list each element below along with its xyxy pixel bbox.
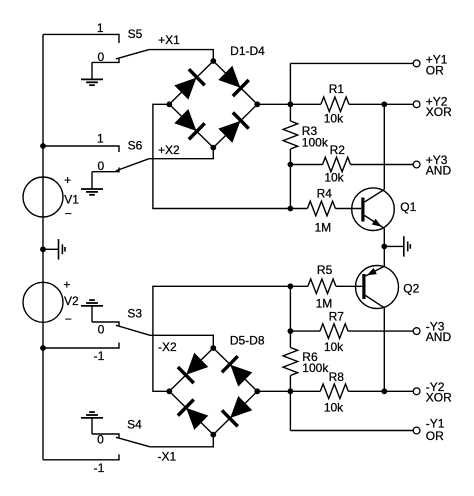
label 1 (S6) — [97, 132, 104, 146]
svg-text:-1: -1 — [94, 349, 105, 363]
resistor R5 — [290, 279, 362, 294]
label 10k (R1) — [324, 112, 344, 126]
wire Q1 collector up — [383, 104, 385, 189]
label R4 — [317, 187, 333, 201]
node emitter-ground junction — [381, 244, 387, 250]
svg-text:0: 0 — [97, 50, 104, 64]
node bridge2 left — [166, 388, 172, 394]
terminal +Y1 — [413, 60, 420, 67]
svg-text:-X1: -X1 — [157, 449, 176, 463]
wire bridge2 right to bus — [257, 390, 290, 392]
svg-text:S3: S3 — [127, 306, 142, 320]
label 1M (R5) — [316, 296, 333, 310]
label XOR (-Y2) — [426, 391, 452, 405]
label -Y1 — [426, 417, 445, 431]
terminal -Y2 — [413, 388, 420, 395]
svg-text:S5: S5 — [128, 27, 143, 41]
V2 label — [64, 294, 79, 308]
wire S4 ground stem — [91, 418, 93, 434]
transistor Q2 emitter lead — [366, 266, 385, 276]
svg-text:+X1: +X1 — [158, 33, 180, 47]
svg-text:−: − — [65, 207, 72, 221]
wire bridge2 left feeder — [153, 286, 291, 391]
svg-text:1: 1 — [97, 21, 104, 35]
label -Y2 — [426, 380, 445, 394]
transistor Q1 emitter lead — [365, 216, 385, 229]
svg-text:OR: OR — [426, 63, 444, 77]
wire bus (below R3) — [289, 149, 291, 209]
wire S3 contact 0 — [92, 322, 119, 326]
V1 minus label — [65, 207, 72, 221]
transistor Q2 body — [356, 266, 399, 309]
node bridge2 top — [210, 345, 216, 351]
label D5-D8 — [230, 333, 265, 347]
svg-text:OR: OR — [426, 429, 444, 443]
node bus-R5 — [288, 283, 294, 289]
node bus-R7 — [288, 328, 294, 334]
label -1 (S3) — [94, 349, 105, 363]
node bridge1 bottom — [210, 145, 216, 151]
wire to transistor ground — [384, 245, 403, 247]
terminal -Y3 — [413, 328, 420, 335]
wire left supply rail — [42, 34, 44, 459]
label 10k (R8) — [324, 400, 344, 414]
terminal -Y1 — [413, 427, 420, 434]
wire S6 contact 1 feed — [43, 146, 119, 152]
svg-text:10k: 10k — [324, 340, 344, 354]
svg-text:D5-D8: D5-D8 — [230, 333, 265, 347]
diode (D1-D4 upper-right) — [217, 65, 250, 98]
node R8-collector junction — [381, 388, 387, 394]
node bus-R1 — [288, 101, 294, 107]
resistor R1 — [290, 97, 384, 112]
wire bus (below R6) — [289, 376, 291, 431]
switch S4 blade — [116, 437, 150, 447]
label Q2 — [403, 282, 419, 296]
resistor R6 — [283, 348, 298, 376]
V2 minus label — [65, 312, 72, 326]
label 0 (S5) — [97, 50, 104, 64]
label +Y2 — [426, 95, 448, 109]
label 0 (S3) — [98, 322, 105, 336]
label Q1 — [400, 200, 416, 214]
switch S6 blade — [116, 159, 149, 171]
label 0 (S4) — [97, 433, 104, 447]
label -1 (S4) — [94, 461, 105, 475]
ground (Q1/Q2 emitters, right-facing) — [404, 236, 411, 256]
label D1-D4 — [230, 44, 265, 58]
switch S6 label — [128, 138, 143, 152]
svg-text:R2: R2 — [330, 143, 346, 157]
svg-text:1M: 1M — [316, 296, 333, 310]
svg-text:XOR: XOR — [426, 391, 452, 405]
diode (D5-D8 upper-left) — [177, 352, 210, 385]
svg-text:+: + — [64, 173, 71, 187]
node bus-R4 — [288, 206, 294, 212]
label OR (+Y1) — [426, 63, 444, 77]
diode (D5-D8 lower-right) — [221, 395, 254, 428]
label -X1 — [157, 449, 176, 463]
wire bridge1 left feeder — [153, 104, 291, 208]
wire bus (R5 to R6) — [289, 286, 291, 347]
resistor R8 — [290, 384, 384, 399]
label +X1 — [158, 33, 180, 47]
node V1-V2 junction — [40, 246, 46, 252]
wire S5 ground stem — [91, 62, 93, 79]
label AND (+Y3) — [426, 164, 452, 178]
label R1 — [329, 82, 345, 96]
svg-text:D1-D4: D1-D4 — [230, 44, 265, 58]
svg-text:+X2: +X2 — [158, 143, 180, 157]
svg-text:R1: R1 — [329, 82, 345, 96]
ground (S3, inverted) — [81, 300, 103, 306]
terminal +Y3 — [413, 161, 420, 168]
diode (D5-D8 lower-left) — [177, 398, 210, 431]
resistor R4 — [290, 201, 361, 216]
wire Q2 collector down — [383, 308, 385, 392]
node rail-S3 — [40, 345, 46, 351]
diode (D5-D8 upper-right) — [221, 355, 254, 388]
label -X2 — [158, 340, 177, 354]
svg-text:0: 0 — [97, 159, 104, 173]
wire bridge1 right to bus — [257, 103, 290, 105]
transistor Q1 body — [352, 188, 395, 231]
resistor R3 — [283, 121, 298, 149]
ground (S4, inverted) — [81, 412, 103, 418]
label R3 — [302, 124, 318, 138]
V1 plus label — [64, 173, 71, 187]
label R6 — [302, 350, 318, 364]
svg-text:R8: R8 — [329, 370, 345, 384]
node bridge2 right — [254, 388, 260, 394]
label 10k (R7) — [324, 340, 344, 354]
wire +X1 — [149, 50, 213, 61]
diode bridge D1-D4 diamond wires — [169, 61, 257, 148]
label 100k (R6) — [302, 361, 329, 375]
ground (S6) — [81, 189, 103, 195]
svg-text:10k: 10k — [324, 170, 344, 184]
wire to +Y2 terminal — [384, 103, 413, 105]
label 0 (S6) — [97, 159, 104, 173]
label +Y3 — [426, 153, 448, 167]
diode (D1-D4 lower-right) — [217, 111, 250, 144]
svg-text:Q1: Q1 — [400, 200, 416, 214]
transistor Q1 collector lead — [365, 190, 385, 203]
node R1-collector junction — [381, 101, 387, 107]
wire S6 ground stem — [91, 172, 93, 189]
svg-text:100k: 100k — [302, 361, 329, 375]
label AND (-Y3) — [426, 330, 452, 344]
label +X2 — [158, 143, 180, 157]
svg-text:-1: -1 — [94, 461, 105, 475]
label OR (-Y1) — [426, 429, 444, 443]
wire -X2 — [150, 335, 213, 348]
wire to -Y2 terminal — [384, 390, 413, 392]
wire +X2 — [149, 148, 213, 159]
svg-text:AND: AND — [426, 330, 452, 344]
wire to middle ground — [43, 248, 58, 250]
wire S4 contact -1 feed — [43, 454, 119, 460]
node bridge1 top — [210, 58, 216, 64]
node bus-R8 — [288, 388, 294, 394]
svg-text:+: + — [63, 278, 70, 292]
wire S3 ground stem — [91, 306, 93, 322]
node bus-R2 — [288, 162, 294, 168]
node bridge1 right — [254, 101, 260, 107]
transistor Q2 base bar — [362, 274, 365, 299]
svg-text:−: − — [65, 312, 72, 326]
svg-text:R7: R7 — [329, 309, 345, 323]
label 100k (R3) — [302, 135, 329, 149]
label XOR (+Y2) — [426, 105, 452, 119]
label R5 — [317, 263, 333, 277]
switch S3 blade — [116, 325, 150, 335]
label -Y3 — [426, 319, 445, 333]
transistor Q2 collector lead — [366, 296, 385, 308]
svg-text:V2: V2 — [64, 294, 79, 308]
svg-text:S4: S4 — [127, 418, 142, 432]
V1 label — [64, 193, 79, 207]
label 1M (R4) — [314, 220, 331, 234]
label R8 — [329, 370, 345, 384]
switch S5 label — [128, 27, 143, 41]
svg-text:Q2: Q2 — [403, 282, 419, 296]
wire -Y1 output — [290, 430, 413, 432]
label R2 — [330, 143, 346, 157]
wire S3 contact -1 feed — [43, 343, 119, 349]
svg-text:XOR: XOR — [426, 105, 452, 119]
transistor Q1 emitter arrow — [372, 219, 382, 227]
resistor R2 — [290, 157, 413, 172]
label 1 (S5) — [97, 21, 104, 35]
wire Q2 emitter up — [383, 246, 385, 266]
transistor Q2 emitter arrow — [367, 268, 377, 276]
node rail-S6 — [40, 143, 46, 149]
svg-text:R4: R4 — [317, 187, 333, 201]
V2 plus label — [63, 278, 70, 292]
wire S5 contact 0 — [92, 59, 119, 63]
svg-text:S6: S6 — [128, 138, 143, 152]
voltage source V1 — [23, 177, 63, 217]
terminal +Y2 — [413, 101, 420, 108]
node bridge1 left — [166, 101, 172, 107]
resistor R7 — [290, 324, 413, 339]
svg-text:100k: 100k — [302, 135, 329, 149]
svg-text:0: 0 — [97, 433, 104, 447]
switch S4 label — [127, 418, 142, 432]
diode bridge D5-D8 diamond wires — [169, 348, 257, 435]
svg-text:-X2: -X2 — [158, 340, 177, 354]
wire bus (top) — [289, 63, 291, 121]
ground (S5) — [81, 79, 103, 85]
ground (middle, right-facing) — [59, 239, 66, 259]
wire +Y1 output — [290, 62, 413, 64]
svg-text:AND: AND — [426, 164, 452, 178]
svg-text:1M: 1M — [314, 220, 331, 234]
transistor Q1 base bar — [361, 198, 364, 222]
svg-text:10k: 10k — [324, 112, 344, 126]
label 10k (R2) — [324, 170, 344, 184]
diode (D1-D4 upper-left) — [173, 68, 206, 101]
wire -X1 — [150, 435, 213, 447]
wire S4 contact 0 — [92, 434, 119, 438]
svg-text:R5: R5 — [317, 263, 333, 277]
voltage source V2 — [23, 282, 63, 322]
switch S5 blade — [116, 50, 149, 59]
svg-text:0: 0 — [98, 322, 105, 336]
wire S6 contact 0 — [92, 168, 119, 172]
svg-text:1: 1 — [97, 132, 104, 146]
label R7 — [329, 309, 345, 323]
node bridge2 bottom — [210, 432, 216, 438]
svg-text:V1: V1 — [64, 193, 79, 207]
diode (D1-D4 lower-left) — [173, 108, 206, 141]
switch S3 label — [127, 306, 142, 320]
svg-text:10k: 10k — [324, 400, 344, 414]
wire Q1 emitter down — [383, 228, 385, 246]
label +Y1 — [426, 53, 448, 67]
wire S5 contact 1 feed — [43, 34, 119, 43]
